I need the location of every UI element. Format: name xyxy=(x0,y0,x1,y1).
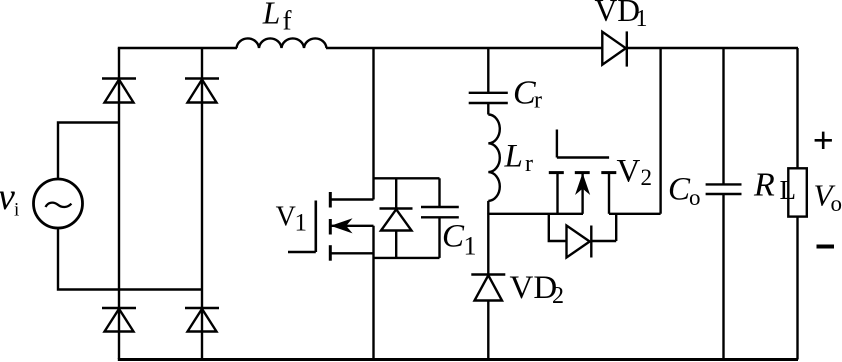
capacitor C1 xyxy=(421,178,459,258)
svg-text:VD: VD xyxy=(510,270,558,306)
label V2 xyxy=(617,154,653,190)
capacitor Co xyxy=(706,184,742,359)
svg-text:V: V xyxy=(276,202,296,233)
svg-text:r: r xyxy=(534,88,542,114)
label Vo xyxy=(814,177,842,216)
svg-text:VD: VD xyxy=(595,0,641,28)
wire source top lead xyxy=(58,123,119,180)
label RL xyxy=(753,166,796,205)
wire Cr top xyxy=(487,48,489,93)
wire V2 drain to rail xyxy=(609,48,661,214)
svg-text:o: o xyxy=(689,185,701,210)
label plus xyxy=(815,132,832,149)
capacitor Cr xyxy=(469,93,508,115)
label Co xyxy=(668,172,701,211)
label minus xyxy=(817,245,835,249)
AC source vi xyxy=(34,179,83,228)
svg-text:1: 1 xyxy=(295,209,308,236)
diode VD1 xyxy=(602,31,627,66)
top rail wire (left of Lf) xyxy=(118,47,237,49)
label Lf xyxy=(262,0,292,36)
wire V1 cell bottom xyxy=(374,257,440,259)
label Lr xyxy=(504,139,534,177)
diode VD2 xyxy=(471,275,505,360)
resistor RL xyxy=(788,168,807,359)
svg-text:1: 1 xyxy=(464,231,477,260)
svg-text:C: C xyxy=(442,219,465,255)
bottom rail wire xyxy=(118,358,798,361)
body diode of V1 xyxy=(380,178,413,258)
bridge diode (bottom-left) xyxy=(102,308,136,332)
wire V1 cell top xyxy=(374,177,440,179)
svg-text:2: 2 xyxy=(641,165,653,190)
wire Lr node down xyxy=(487,214,489,275)
svg-text:C: C xyxy=(513,75,536,112)
label VD1 xyxy=(595,0,648,32)
svg-text:L: L xyxy=(780,175,797,205)
wire Co vertical top xyxy=(722,48,724,184)
top rail wire (VD1 to right corner) xyxy=(627,47,798,49)
wire V1 drain vertical xyxy=(372,48,374,200)
svg-text:o: o xyxy=(831,191,842,216)
svg-text:V: V xyxy=(617,154,641,190)
wire source bottom lead xyxy=(58,228,202,290)
inductor Lf xyxy=(237,38,327,48)
svg-text:i: i xyxy=(14,200,19,221)
antiparallel diode of V2 xyxy=(549,214,616,258)
svg-text:v: v xyxy=(0,176,15,218)
svg-text:C: C xyxy=(668,172,691,208)
wire V1 body/source vertical xyxy=(372,226,374,359)
label C1 xyxy=(442,219,477,261)
svg-text:R: R xyxy=(753,166,775,203)
right bridge leg wire xyxy=(201,48,203,359)
bridge diode (bottom-right) xyxy=(185,308,219,332)
svg-text:L: L xyxy=(262,0,281,31)
label V1 xyxy=(276,202,307,237)
svg-text:L: L xyxy=(504,139,523,175)
svg-text:1: 1 xyxy=(636,6,648,32)
svg-text:f: f xyxy=(283,6,292,36)
svg-text:2: 2 xyxy=(552,283,564,309)
wire RL vertical top xyxy=(796,48,798,168)
label Cr xyxy=(513,75,542,114)
bridge diode (top-left) xyxy=(102,79,136,103)
label VD2 xyxy=(510,270,565,309)
inductor Lr xyxy=(488,115,500,215)
transistor V1 (MOSFET) xyxy=(288,192,374,261)
transistor V2 (MOSFET) xyxy=(549,130,617,214)
left bridge leg wire xyxy=(118,48,120,359)
bridge diode (top-right) xyxy=(185,79,219,103)
label vi xyxy=(0,176,19,221)
svg-text:r: r xyxy=(525,151,533,177)
top rail wire (Lf to VD1) xyxy=(326,47,602,49)
wire Lr node to V2 source xyxy=(488,213,583,215)
